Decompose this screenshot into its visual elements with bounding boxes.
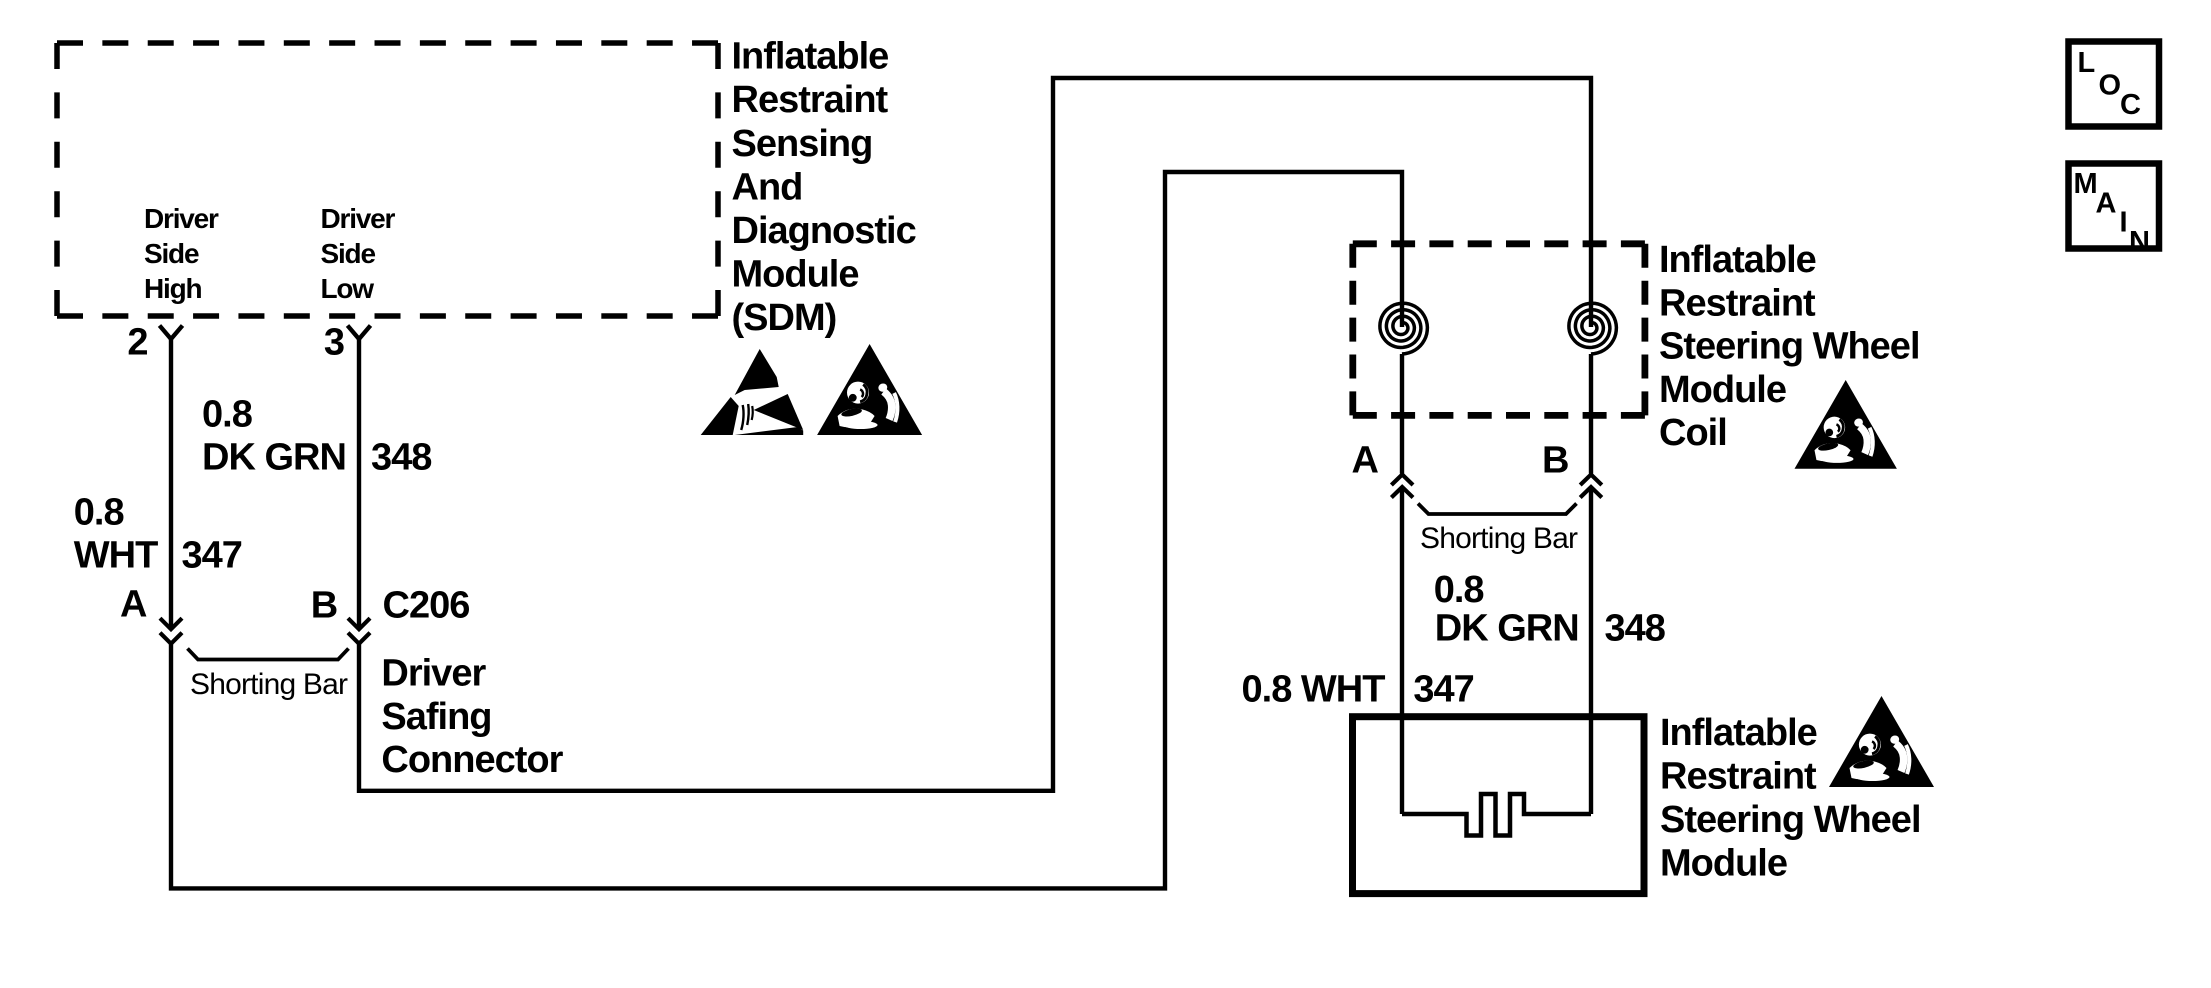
svg-text:Sensing: Sensing	[732, 123, 873, 165]
svg-text:3: 3	[324, 322, 344, 364]
label: SDM internal pin function Driver Side Low	[321, 203, 396, 304]
svg-text:Side: Side	[321, 238, 376, 269]
wire label: 0.8 DK GRN (circuit 348, right)	[1434, 569, 1579, 650]
wire circuit 347 segment connector pin A to squib	[1400, 487, 1404, 814]
coil L1 (clockspring) circuit 347 side	[1380, 303, 1428, 354]
svg-text:DK GRN: DK GRN	[202, 437, 346, 479]
svg-text:Restraint: Restraint	[1659, 282, 1816, 324]
wire circuit 347 segment pin2 to C206 pin A	[169, 339, 173, 629]
connector C206 pin A mating halves (chevrons)	[160, 618, 182, 644]
reference box LOC	[2069, 42, 2160, 127]
svg-text:Inflatable: Inflatable	[1660, 712, 1817, 754]
connector C206 pin B mating halves (chevrons)	[348, 618, 370, 644]
svg-text:Side: Side	[144, 238, 199, 269]
reference box MAIN	[2069, 164, 2160, 249]
svg-text:Module: Module	[732, 254, 859, 296]
svg-text:A: A	[1352, 440, 1379, 482]
label: Inflatable Restraint Steering Wheel Module Coil	[1659, 239, 1920, 454]
wire label: 0.8 WHT (circuit 347)	[74, 492, 158, 577]
coil L2 (clockspring) circuit 348 side	[1569, 303, 1617, 354]
connector symbol at SDM pin 2	[160, 326, 183, 340]
label: SDM module name	[732, 36, 917, 340]
svg-text:I: I	[2120, 207, 2128, 239]
label: LOC diagonal letters	[2078, 47, 2142, 121]
wire label: 0.8 DK GRN (circuit 348)	[202, 394, 346, 479]
svg-text:A: A	[120, 584, 147, 626]
svg-text:Shorting Bar: Shorting Bar	[1420, 522, 1578, 555]
label: SDM internal pin function Driver Side High	[144, 203, 219, 304]
wire circuit 348 segment connector pin B to squib	[1589, 487, 1593, 814]
svg-text:A: A	[2096, 188, 2117, 220]
svg-text:Shorting Bar: Shorting Bar	[190, 668, 348, 701]
svg-text:0.8 WHT: 0.8 WHT	[1242, 668, 1386, 710]
svg-text:Driver: Driver	[321, 203, 396, 234]
svg-text:Coil: Coil	[1659, 412, 1727, 454]
svg-text:347: 347	[182, 535, 242, 577]
label: MAIN diagonal letters	[2074, 168, 2150, 258]
svg-text:Restraint: Restraint	[732, 79, 889, 121]
warning symbol: SRS airbag triangle (near coil)	[1795, 380, 1897, 469]
warning symbol: SRS airbag triangle (near SDM)	[817, 344, 922, 435]
svg-text:0.8: 0.8	[202, 394, 252, 436]
svg-text:C206: C206	[383, 584, 470, 626]
connector pin A mating halves (chevrons, coil to module)	[1391, 475, 1413, 498]
svg-text:0.8: 0.8	[74, 492, 124, 534]
module U1 SDM (Inflatable Restraint Sensing And Diagnostic Module) dashed outline box	[57, 43, 718, 316]
svg-text:Driver: Driver	[381, 653, 486, 695]
wire circuit 347 segment coil to connector pin A	[1400, 354, 1404, 474]
wire circuit 348 segment pin3 to C206 pin B	[357, 339, 361, 629]
label: Inflatable Restraint Steering Wheel Module	[1660, 712, 1921, 885]
svg-text:Driver: Driver	[144, 203, 219, 234]
module coil assembly dashed outline box	[1353, 244, 1645, 416]
connector pin B mating halves (chevrons, coil to module)	[1580, 475, 1602, 498]
wire circuit 348 segment coil to connector pin B	[1589, 354, 1593, 474]
svg-text:DK GRN: DK GRN	[1435, 607, 1579, 649]
shorting bar symbol at coil connector	[1418, 504, 1577, 515]
svg-text:WHT: WHT	[74, 535, 158, 577]
svg-text:Safing: Safing	[381, 696, 491, 738]
squib R1 (airbag initiator) inside module	[1402, 794, 1591, 836]
svg-text:Restraint: Restraint	[1660, 756, 1817, 798]
svg-text:Steering Wheel: Steering Wheel	[1660, 799, 1921, 841]
svg-text:N: N	[2129, 226, 2150, 258]
label: Driver Safing Connector	[381, 653, 563, 782]
svg-text:High: High	[144, 273, 202, 304]
warning symbol: SRS airbag triangle (near module)	[1829, 696, 1934, 787]
svg-text:And: And	[732, 166, 803, 208]
svg-text:(SDM): (SDM)	[732, 297, 837, 339]
svg-text:Low: Low	[321, 273, 375, 304]
svg-text:Module: Module	[1659, 369, 1786, 411]
wire circuit 347 routing C206 pin A to coil pin A	[171, 172, 1402, 888]
svg-text:Steering Wheel: Steering Wheel	[1659, 326, 1920, 368]
svg-text:M: M	[2074, 168, 2098, 200]
svg-text:B: B	[311, 584, 337, 626]
svg-text:348: 348	[1605, 607, 1665, 649]
svg-text:2: 2	[127, 322, 147, 364]
svg-text:348: 348	[371, 437, 431, 479]
module box Inflatable Restraint Steering Wheel Module	[1353, 717, 1645, 894]
svg-text:Inflatable: Inflatable	[732, 36, 889, 78]
svg-text:B: B	[1542, 440, 1568, 482]
wire circuit 348 routing C206 pin B to coil pin B	[359, 78, 1591, 791]
shorting bar symbol at C206	[188, 649, 349, 660]
warning symbol: ESD sensitive triangle	[701, 349, 804, 435]
svg-text:Module: Module	[1660, 843, 1787, 885]
svg-text:0.8: 0.8	[1434, 569, 1484, 611]
svg-text:Diagnostic: Diagnostic	[732, 210, 917, 252]
svg-text:O: O	[2099, 70, 2122, 102]
svg-text:C: C	[2120, 89, 2141, 121]
svg-text:Connector: Connector	[381, 739, 563, 781]
connector symbol at SDM pin 3	[348, 326, 371, 340]
svg-text:Inflatable: Inflatable	[1659, 239, 1816, 281]
svg-text:L: L	[2078, 47, 2096, 79]
svg-text:347: 347	[1413, 668, 1473, 710]
